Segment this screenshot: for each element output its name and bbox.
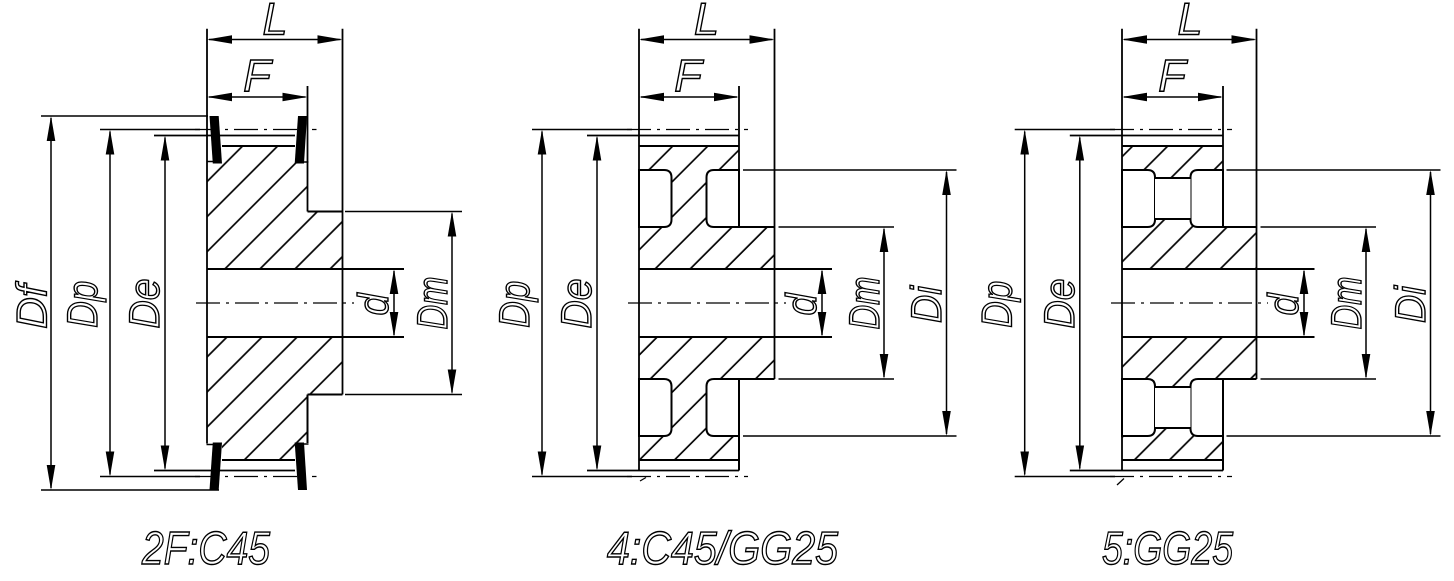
figure 3 web bottom edges <box>1155 386 1191 388</box>
figure 3 Di extension top <box>1227 169 1441 171</box>
figure 3 side recess top-left <box>1122 170 1155 227</box>
figure 3 side recess bottom-left <box>1122 379 1155 436</box>
figure 1 tooth tip line top / De extension <box>154 135 295 137</box>
figure 2 side recess bottom-right <box>707 379 740 436</box>
figure 1 flange bottom-left (solid) <box>210 443 223 491</box>
figure 1 bore line top <box>207 268 404 270</box>
figure 2 d extension bottom <box>775 336 833 338</box>
figure 3 Dp extension bottom <box>1015 476 1115 478</box>
svg-text:d: d <box>778 292 826 316</box>
figure 3 section hatch lower <box>1122 331 1257 466</box>
figure 1 d extension bottom <box>343 336 405 338</box>
figure 3 tooth tip line bottom / De extension <box>1070 470 1223 472</box>
figure 2 right rim edge upper / F extension <box>738 86 740 227</box>
svg-text:Di: Di <box>1387 285 1435 323</box>
svg-text:Dp: Dp <box>974 281 1022 328</box>
svg-text:d: d <box>350 292 398 316</box>
figure 1 right rim edge lower <box>307 395 309 444</box>
figure 2 side recess bottom-left <box>639 379 672 436</box>
svg-text:2F:C45: 2F:C45 <box>141 522 270 574</box>
figure 2 pitch line bottom (dash-dot) <box>627 476 748 478</box>
svg-text:De: De <box>1036 279 1084 329</box>
figure 1 dimension Dm with arrows <box>451 214 453 393</box>
figure 1 pitch line top (dash-dot) <box>195 129 317 131</box>
figure 1 flange notch top-right <box>302 161 309 163</box>
figure 2 Dm extension top <box>779 226 895 228</box>
figure 1 right rim edge / F extension line <box>307 86 309 212</box>
figure 3 axis centerline (dash-dot) <box>1111 302 1268 304</box>
svg-text:Dm: Dm <box>841 277 889 330</box>
figure 2 Dp extension top <box>532 129 632 131</box>
figure 1 dimension Dp with arrows <box>109 132 111 475</box>
figure 1 Df extension top <box>41 115 208 117</box>
svg-text:Dp: Dp <box>59 281 107 328</box>
figure 3 web top (white) <box>1155 178 1191 219</box>
figure 1 tooth root line top <box>222 145 295 147</box>
figure 3 dimension Di with arrows <box>1430 172 1432 434</box>
figure 1 bore line bottom <box>207 336 404 338</box>
figure 3 dimension De with arrows <box>1079 138 1081 469</box>
figure 2 section hatch lower <box>639 331 775 466</box>
figure 3 dimension Dm with arrows <box>1365 229 1367 377</box>
figure 2 tooth root line top <box>639 145 739 147</box>
figure 1 hub step top <box>308 211 343 213</box>
svg-text:5:GG25: 5:GG25 <box>1102 522 1233 574</box>
figure 1 axis centerline (dash-dot) <box>196 302 354 304</box>
svg-text:Dp: Dp <box>491 281 539 328</box>
figure 1 section hatch lower <box>207 331 343 466</box>
figure 1 flange top-left (solid) <box>210 116 223 164</box>
figure 1 dimension De with arrows <box>164 138 166 469</box>
figure 1 dimension Df with arrows <box>50 118 52 488</box>
figure 2 dimension L line with arrows <box>641 39 773 41</box>
svg-text:Df: Df <box>9 281 57 329</box>
figure 2 side recess top-right <box>707 170 740 227</box>
figure 2 Dp extension bottom <box>532 476 632 478</box>
figure 3 Di extension bottom <box>1227 435 1441 437</box>
figure 2 side recess top-left <box>639 170 672 227</box>
figure 3 bore line top <box>1122 268 1315 270</box>
figure 2 dimension Dp with arrows <box>541 132 543 475</box>
figure 2 hub face / L extension line <box>774 29 776 379</box>
figure 2 hub step top <box>739 226 775 228</box>
svg-text:d: d <box>1260 292 1308 316</box>
svg-text:Dm: Dm <box>1323 277 1371 330</box>
figure 3 d extension top <box>1257 268 1315 270</box>
figure 2 Di extension top <box>743 169 957 171</box>
figure 1 Df extension bottom <box>41 489 219 491</box>
figure 2 centerline tick bottom <box>640 478 646 482</box>
figure 3 pulley 5:GG25 section hatch upper <box>1122 140 1257 275</box>
figure 3 d extension bottom <box>1257 336 1315 338</box>
figure 1 tooth tip line bottom / De extension <box>154 470 295 472</box>
svg-text:F: F <box>243 50 273 101</box>
figure 3 pitch line top (dash-dot) <box>1110 129 1232 131</box>
figure 2 tooth tip line bottom / De extension <box>587 470 739 472</box>
svg-text:L: L <box>1177 0 1202 45</box>
figure 3 dimension F line with arrows <box>1124 96 1221 98</box>
svg-text:L: L <box>694 0 719 45</box>
figure 1 pulley 2F:C45 section hatch upper <box>207 140 343 275</box>
svg-text:4:C45/GG25: 4:C45/GG25 <box>607 522 838 574</box>
figure 1 dimension d with arrows <box>393 271 395 335</box>
figure 2 d extension top <box>775 268 833 270</box>
figure 1 Dp extension bottom <box>100 476 200 478</box>
figure 1 flange bottom-right (solid) <box>295 443 307 491</box>
figure 3 Dm extension bottom <box>1261 378 1377 380</box>
figure 2 bore line top <box>639 268 832 270</box>
figure 1 dimension L line with arrows <box>209 39 341 41</box>
figure 3 dimension L line with arrows <box>1124 39 1255 41</box>
svg-text:De: De <box>553 279 601 329</box>
figure 2 dimension F line with arrows <box>641 96 737 98</box>
figure 3 Dm extension top <box>1261 226 1377 228</box>
figure 2 tooth tip line top / De extension <box>587 135 739 137</box>
svg-text:Dm: Dm <box>409 277 457 330</box>
figure 2 axis centerline (dash-dot) <box>628 302 786 304</box>
svg-text:L: L <box>262 0 287 45</box>
figure 3 side recess top-right <box>1191 170 1224 227</box>
figure 3 web top edges <box>1155 177 1191 179</box>
figure 1 Dm extension top <box>345 211 462 213</box>
figure 1 Dm extension bottom <box>345 394 462 396</box>
figure 3 hub step top <box>1223 226 1257 228</box>
figure 2 dimension d with arrows <box>821 271 823 335</box>
figure 1 pitch line bottom (dash-dot) <box>195 476 317 478</box>
svg-text:F: F <box>674 50 704 101</box>
figure 2 dimension Di with arrows <box>946 172 948 434</box>
figure 2 hub step bottom <box>739 378 775 380</box>
figure 1 flange top-right (solid) <box>295 116 307 164</box>
figure 1 flange notch bottom-right <box>302 443 309 445</box>
figure 3 pitch line bottom (dash-dot) <box>1110 476 1232 478</box>
figure 1 Dp extension top <box>100 129 200 131</box>
figure 1 flange notch top-left <box>207 161 214 163</box>
figure 3 hub step bottom <box>1223 378 1257 380</box>
figure 1 hub face / L extension line <box>342 29 344 395</box>
figure 1 tooth root line bottom <box>222 459 295 461</box>
figure 2 tooth root line bottom <box>639 459 739 461</box>
figure 3 hub face / L extension line <box>1256 29 1258 379</box>
figure 3 web bottom (white) <box>1155 387 1191 428</box>
figure 3 left face / L-F extension line <box>1121 29 1123 471</box>
figure 3 tooth root line bottom <box>1122 459 1223 461</box>
svg-text:Di: Di <box>903 285 951 323</box>
figure 1 hub step bottom <box>308 394 343 396</box>
figure 3 bore line bottom <box>1122 336 1315 338</box>
figure 2 Di extension bottom <box>743 435 957 437</box>
figure 2 dimension Dm with arrows <box>883 229 885 377</box>
figure 2 left face / L-F extension line <box>638 29 640 471</box>
figure 3 tooth root line top <box>1122 145 1223 147</box>
figure 3 dimension d with arrows <box>1303 271 1305 335</box>
figure 3 right rim edge lower <box>1222 379 1224 471</box>
figure 3 tooth tip line top / De extension <box>1070 135 1223 137</box>
figure 3 side recess bottom-right <box>1191 379 1224 436</box>
figure 3 dimension Dp with arrows <box>1024 132 1026 475</box>
figure 2 right rim edge lower <box>738 379 740 471</box>
figure 2 pitch line top (dash-dot) <box>627 129 748 131</box>
figure 1 dimension F line with arrows <box>209 96 306 98</box>
svg-text:De: De <box>121 279 169 329</box>
figure 2 Dm extension bottom <box>779 378 895 380</box>
figure 3 centerline tick bottom <box>1117 479 1124 486</box>
figure 1 flange notch bottom-left <box>207 444 214 446</box>
svg-text:F: F <box>1158 50 1188 101</box>
figure 2 pulley 4:C45/GG25 section hatch upper <box>639 140 775 275</box>
figure 3 right rim edge upper / F extension <box>1222 86 1224 227</box>
figure 3 Dp extension top <box>1015 129 1115 131</box>
figure 1 left face / L-F extension line <box>206 29 208 444</box>
figure 2 bore line bottom <box>639 336 832 338</box>
figure 2 dimension De with arrows <box>596 138 598 469</box>
figure 1 d extension top <box>343 268 405 270</box>
